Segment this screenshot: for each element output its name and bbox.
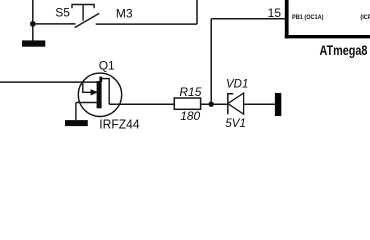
pin label PB1 (OC1A) <box>292 13 324 21</box>
svg-text:IRFZ44: IRFZ44 <box>99 117 139 132</box>
Q1 substrate arrow <box>91 89 98 95</box>
svg-text:5V1: 5V1 <box>225 118 245 130</box>
terminal post (black bar) <box>275 93 281 116</box>
wire: switch right contact to corner <box>96 23 197 25</box>
switch lever <box>75 13 100 27</box>
ground (top left) <box>22 40 45 46</box>
Q1 source stub <box>76 102 98 104</box>
wire: rail VD1 to terminal <box>244 103 276 105</box>
pin label (ICP clipped <box>360 13 370 21</box>
ground (below Q1) <box>65 120 88 126</box>
svg-text:M3: M3 <box>116 7 133 21</box>
svg-text:PB1 (OC1A): PB1 (OC1A) <box>292 13 324 21</box>
wire: pin 15 horizontal into IC box <box>211 18 285 20</box>
svg-text:(ICP): (ICP) <box>360 13 370 21</box>
Q1 drain stub <box>101 78 109 80</box>
svg-text:VD1: VD1 <box>226 79 248 91</box>
svg-text:180: 180 <box>180 109 200 123</box>
svg-text:15: 15 <box>268 6 282 20</box>
Q1 gate/channel bar <box>97 81 102 108</box>
wire: rail Q1 drain to R15 <box>109 103 174 105</box>
svg-text:S5: S5 <box>55 5 70 19</box>
resistor R15 body <box>174 98 200 109</box>
Q1 channel bar top <box>99 77 102 82</box>
label ATmega8 <box>320 43 368 59</box>
actuator stem <box>82 5 84 21</box>
Q1 drain vertical <box>108 78 110 104</box>
switch S5 <box>72 5 99 28</box>
Q1 source vertical to ground <box>75 103 77 121</box>
svg-text:R15: R15 <box>179 85 201 99</box>
Q1 gate step <box>83 82 91 92</box>
wire: gate wire from left edge into Q1 <box>0 81 98 83</box>
wire: vertical at x=197 up to top edge <box>196 0 198 24</box>
junction dot A (switch branch) <box>30 21 36 27</box>
svg-text:ATmega8: ATmega8 <box>320 43 368 59</box>
svg-text:Q1: Q1 <box>99 58 115 72</box>
wire: vertical from pin-15 wire down to rail junction <box>210 19 212 104</box>
actuator bar with hooks <box>72 5 94 9</box>
wire: horizontal to switch S5 left contact <box>33 23 76 25</box>
zener diode VD1 triangle <box>228 93 244 114</box>
IC U1 box (bottom-left corner of ATmega8) <box>285 0 370 38</box>
VD1 cathode bar with zener tail <box>228 94 233 115</box>
transistor Q1 body circle <box>78 73 121 116</box>
junction dot B (R15 / VD1 / pin15) <box>209 102 214 107</box>
wire: left vertical from top edge down to ground <box>32 0 34 41</box>
wire: rail R15 to VD1 cathode bar <box>201 103 228 105</box>
